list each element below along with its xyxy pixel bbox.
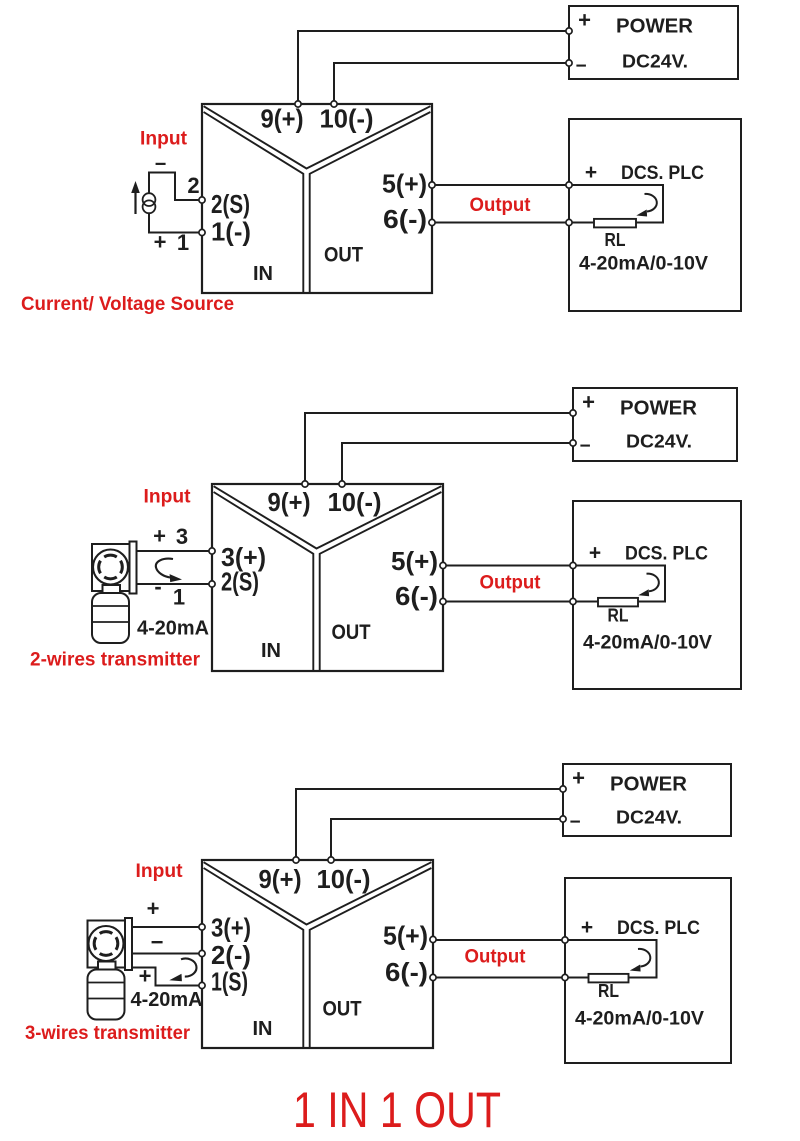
terminal 5(+) on module right	[429, 182, 435, 188]
wire pin 6 to DCS minus	[436, 977, 562, 979]
svg-text:OUT: OUT	[332, 621, 371, 644]
wire power plus to pin 9	[305, 413, 570, 481]
svg-text:RL: RL	[608, 605, 629, 626]
svg-text:Input: Input	[144, 486, 191, 508]
svg-text:2(-): 2(-)	[211, 940, 251, 970]
svg-text:3: 3	[176, 524, 188, 549]
svg-text:RL: RL	[598, 980, 619, 1001]
loop direction arrow	[638, 949, 650, 967]
wire pin 5 to DCS plus	[436, 939, 562, 941]
transmitter face inner ring	[104, 555, 117, 557]
svg-text:Output: Output	[480, 572, 541, 594]
svg-text:DCS. PLC: DCS. PLC	[621, 163, 704, 184]
svg-text:5(+): 5(+)	[382, 169, 427, 199]
Y divider upper vee	[204, 862, 432, 924]
power - terminal	[560, 816, 566, 822]
loop arrow d2	[156, 559, 173, 578]
svg-text:DCS. PLC: DCS. PLC	[617, 918, 700, 939]
svg-text:1: 1	[177, 230, 189, 255]
transmitter body	[92, 593, 129, 643]
terminal 2(S) on module left	[209, 581, 215, 587]
loop direction arrow	[645, 194, 657, 212]
Y divider right inner line and stem right	[310, 112, 431, 293]
wire power minus to pin 10	[334, 63, 566, 101]
terminal 5(+) on module right	[430, 936, 436, 942]
DCS PLC box	[573, 501, 741, 689]
isolator module body	[202, 860, 433, 1048]
power supply box	[563, 764, 731, 836]
transmitter body seam 1	[92, 605, 129, 607]
svg-text:OUT: OUT	[324, 244, 363, 267]
loop arrow d3	[181, 959, 196, 977]
DCS plus terminal	[566, 182, 572, 188]
wire transmitter plus to pin 3	[132, 926, 199, 928]
wire pin 6 to DCS minus	[435, 222, 566, 224]
svg-text:5(+): 5(+)	[383, 921, 428, 951]
transmitter head	[92, 544, 130, 591]
svg-text:Current/ Voltage Source: Current/ Voltage Source	[21, 293, 234, 315]
svg-text:+: +	[154, 230, 167, 255]
svg-text:4-20mA/0-10V: 4-20mA/0-10V	[583, 632, 712, 654]
terminal 3(+) on module left	[199, 924, 205, 930]
pin 10 terminal	[328, 857, 334, 863]
terminal 5(+) on module right	[440, 562, 446, 568]
svg-text:Input: Input	[136, 860, 183, 882]
power + terminal	[560, 786, 566, 792]
power + terminal	[570, 410, 576, 416]
svg-text:9(+): 9(+)	[261, 104, 304, 134]
svg-text:1: 1	[173, 585, 185, 610]
svg-text:−: −	[575, 56, 586, 77]
svg-text:−: −	[579, 436, 590, 457]
signal source symbol	[143, 193, 156, 206]
svg-text:4-20mA: 4-20mA	[131, 989, 203, 1011]
power + terminal	[566, 28, 572, 34]
wire source plus to pin 1	[149, 213, 199, 232]
DCS plus terminal	[562, 937, 568, 943]
wire source minus to pin 2	[149, 173, 199, 201]
wire transmitter plus to pin 3	[137, 550, 210, 552]
wire transmitter minus to pin 2	[132, 953, 199, 955]
svg-text:+: +	[572, 766, 585, 791]
svg-text:3-wires transmitter: 3-wires transmitter	[25, 1022, 190, 1044]
svg-text:2(S): 2(S)	[221, 567, 259, 597]
svg-text:9(+): 9(+)	[259, 864, 302, 894]
power supply box	[569, 6, 738, 79]
svg-text:5(+): 5(+)	[391, 546, 438, 576]
svg-text:POWER: POWER	[620, 398, 698, 420]
svg-text:10(-): 10(-)	[328, 487, 382, 517]
svg-text:DC24V.: DC24V.	[622, 52, 688, 72]
transmitter body seam 1	[88, 982, 125, 984]
DCS plus terminal	[570, 562, 576, 568]
pin 10 terminal	[339, 481, 345, 487]
DCS minus terminal	[566, 219, 572, 225]
svg-text:9(+): 9(+)	[268, 487, 311, 517]
svg-text:−: −	[151, 930, 164, 955]
pin 9 terminal	[293, 857, 299, 863]
svg-text:DC24V.: DC24V.	[626, 432, 692, 452]
wire power minus to pin 10	[342, 443, 570, 481]
svg-text:4-20mA/0-10V: 4-20mA/0-10V	[579, 253, 708, 275]
svg-text:DCS. PLC: DCS. PLC	[625, 544, 708, 565]
terminal 6(-) on module right	[440, 598, 446, 604]
svg-text:+: +	[582, 390, 595, 415]
Y divider right inner line and stem right	[310, 868, 432, 1048]
svg-text:6(-): 6(-)	[395, 581, 438, 611]
svg-text:4-20mA: 4-20mA	[137, 618, 209, 640]
svg-text:OUT: OUT	[323, 998, 362, 1021]
Y divider left inner line and stem left	[214, 492, 314, 671]
loop direction arrow	[647, 574, 659, 592]
Y divider left inner line and stem left	[204, 112, 304, 293]
load resistor RL	[594, 219, 636, 228]
wire power plus to pin 9	[296, 789, 560, 857]
transmitter body seam 2	[88, 998, 125, 1000]
wire power plus to pin 9	[298, 31, 566, 101]
terminal 6(-) on module right	[430, 974, 436, 980]
load resistor RL	[598, 598, 638, 607]
terminal 1(S) on module left	[199, 982, 205, 988]
DCS PLC box	[569, 119, 741, 311]
svg-text:Output: Output	[470, 194, 531, 216]
svg-text:DC24V.: DC24V.	[616, 808, 682, 828]
svg-text:+: +	[153, 524, 166, 549]
terminal 1(-) on module left	[199, 229, 205, 235]
svg-text:2(S): 2(S)	[211, 189, 250, 219]
wire pin 5 to DCS plus	[435, 184, 566, 186]
svg-text:POWER: POWER	[616, 16, 694, 38]
wire transmitter minus to pin 2	[137, 583, 210, 585]
power supply box	[573, 388, 737, 461]
svg-text:Input: Input	[140, 128, 187, 150]
wire transmitter signal to pin 1	[132, 968, 199, 986]
transmitter face outer circle	[93, 550, 128, 585]
source direction arrow	[134, 192, 136, 214]
svg-text:IN: IN	[253, 1018, 273, 1040]
svg-text:Output: Output	[465, 946, 526, 968]
isolator module body	[202, 104, 432, 293]
wire pin 6 to DCS minus	[446, 601, 570, 603]
terminal 3(+) on module left	[209, 548, 215, 554]
svg-text:IN: IN	[261, 640, 281, 662]
isolator module body	[212, 484, 443, 671]
svg-text:+: +	[578, 8, 591, 33]
svg-text:−: −	[569, 812, 580, 833]
terminal 2(S) on module left	[199, 197, 205, 203]
DCS PLC box	[565, 878, 731, 1063]
svg-text:10(-): 10(-)	[320, 104, 374, 134]
load loop wire	[572, 185, 663, 223]
Y divider left inner line and stem left	[204, 868, 304, 1048]
svg-text:2: 2	[187, 173, 199, 198]
transmitter side bar	[130, 542, 137, 594]
svg-text:+: +	[147, 896, 160, 921]
svg-text:-: -	[154, 574, 161, 599]
svg-text:10(-): 10(-)	[317, 864, 371, 894]
transmitter neck	[103, 585, 121, 593]
svg-text:+: +	[139, 964, 152, 989]
svg-text:4-20mA/0-10V: 4-20mA/0-10V	[575, 1008, 704, 1030]
DCS minus terminal	[562, 974, 568, 980]
power - terminal	[570, 440, 576, 446]
svg-text:+: +	[589, 542, 601, 565]
svg-text:2-wires transmitter: 2-wires transmitter	[30, 649, 200, 671]
pin 9 terminal	[302, 481, 308, 487]
svg-text:6(-): 6(-)	[383, 204, 427, 234]
svg-text:IN: IN	[253, 263, 273, 285]
terminal 2(-) on module left	[199, 950, 205, 956]
load resistor RL	[589, 974, 629, 983]
transmitter body seam 2	[92, 621, 129, 623]
pin 10 terminal	[331, 101, 337, 107]
svg-text:+: +	[585, 161, 597, 184]
load loop wire	[568, 940, 656, 978]
transmitter head	[88, 921, 126, 968]
svg-text:RL: RL	[605, 229, 626, 250]
wire power minus to pin 10	[331, 819, 560, 857]
svg-text:+: +	[581, 916, 593, 939]
transmitter side bar	[125, 918, 132, 970]
transmitter face outer circle	[89, 926, 124, 961]
DCS minus terminal	[570, 598, 576, 604]
load loop wire	[576, 566, 665, 602]
svg-text:−: −	[155, 154, 167, 176]
transmitter body	[88, 970, 125, 1020]
svg-text:1(S): 1(S)	[211, 967, 248, 997]
Y divider upper vee	[214, 486, 442, 548]
svg-text:6(-): 6(-)	[385, 957, 428, 987]
power - terminal	[566, 60, 572, 66]
svg-text:1 IN 1 OUT: 1 IN 1 OUT	[293, 1082, 501, 1136]
transmitter neck	[98, 962, 116, 970]
svg-text:POWER: POWER	[610, 774, 688, 796]
terminal 6(-) on module right	[429, 219, 435, 225]
transmitter face inner ring	[100, 932, 113, 934]
pin 9 terminal	[295, 101, 301, 107]
svg-text:1(-): 1(-)	[211, 217, 251, 247]
wire pin 5 to DCS plus	[446, 565, 570, 567]
Y divider upper vee	[204, 106, 431, 168]
Y divider right inner line and stem right	[320, 492, 442, 671]
svg-text:3(+): 3(+)	[211, 913, 251, 943]
